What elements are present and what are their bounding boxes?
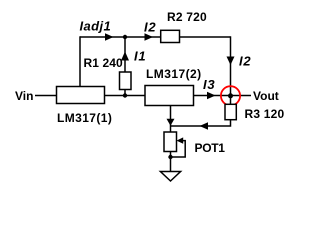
svg-text:R2 720: R2 720 xyxy=(167,10,207,24)
potentiometer POT1 wiper arrow xyxy=(177,137,184,143)
arrow: Iadj1 current direction on top rail xyxy=(105,33,114,40)
arrow: I3 current direction on output wire xyxy=(207,92,216,99)
svg-text:POT1: POT1 xyxy=(195,141,226,155)
potentiometer POT1 body xyxy=(164,132,177,152)
svg-text:I2: I2 xyxy=(144,20,156,35)
wire: R1 bottom lead xyxy=(124,90,126,96)
ground symbol xyxy=(160,172,180,182)
junction dot: R1 branch on top rail xyxy=(123,35,127,39)
svg-text:Vin: Vin xyxy=(15,89,33,103)
junction dot: Vout node xyxy=(228,93,233,98)
regulator U2 LM317(2) body xyxy=(145,86,194,106)
resistor R1 xyxy=(120,72,132,90)
svg-text:I2: I2 xyxy=(239,54,251,69)
wire: top rail right segment xyxy=(180,36,231,38)
wire: LM317(2) output to Vout xyxy=(194,95,252,97)
wire: LM317(2) adjust drop to POT1 xyxy=(170,106,172,133)
wire: left drop from top rail to LM317(1) top xyxy=(79,36,81,86)
svg-text:Iadj1: Iadj1 xyxy=(80,19,112,34)
wire: between LM317(1) output and LM317(2) input xyxy=(105,95,146,97)
arrow: I2 current direction before R2 xyxy=(145,33,154,40)
svg-text:R3 120: R3 120 xyxy=(245,107,285,121)
regulator U1 LM317(1) body xyxy=(57,87,105,104)
wire: right drop from top rail to Vout node xyxy=(230,36,232,104)
wire: R3 bottom to return wire xyxy=(171,120,231,126)
arrow: I2 current direction down right drop xyxy=(227,57,235,66)
wire: Vin lead xyxy=(35,95,57,97)
svg-text:LM317(2): LM317(2) xyxy=(146,67,202,81)
resistor R2 xyxy=(161,30,180,42)
resistor R3 xyxy=(225,104,236,119)
arrow: I1 current direction up R1 branch xyxy=(121,52,129,61)
wire: POT1 wiper return xyxy=(171,141,186,157)
junction dot: wiper return on bottom lead xyxy=(168,155,172,159)
wire: top rail left segment xyxy=(80,36,160,38)
svg-text:R1 240: R1 240 xyxy=(84,56,124,70)
arrow: current direction down into POT1 xyxy=(167,119,175,126)
svg-text:I3: I3 xyxy=(203,77,215,92)
svg-text:LM317(1): LM317(1) xyxy=(57,111,112,125)
junction dot: R1 bottom on middle wire xyxy=(123,93,127,97)
arrow: current direction left on return wire xyxy=(200,122,209,129)
wire: POT1 bottom lead to ground xyxy=(170,152,172,172)
svg-text:I1: I1 xyxy=(134,49,146,64)
svg-text:Vout: Vout xyxy=(253,89,279,103)
node: Vout junction red highlight circle xyxy=(221,86,240,105)
wire: R1 top lead xyxy=(124,37,126,72)
